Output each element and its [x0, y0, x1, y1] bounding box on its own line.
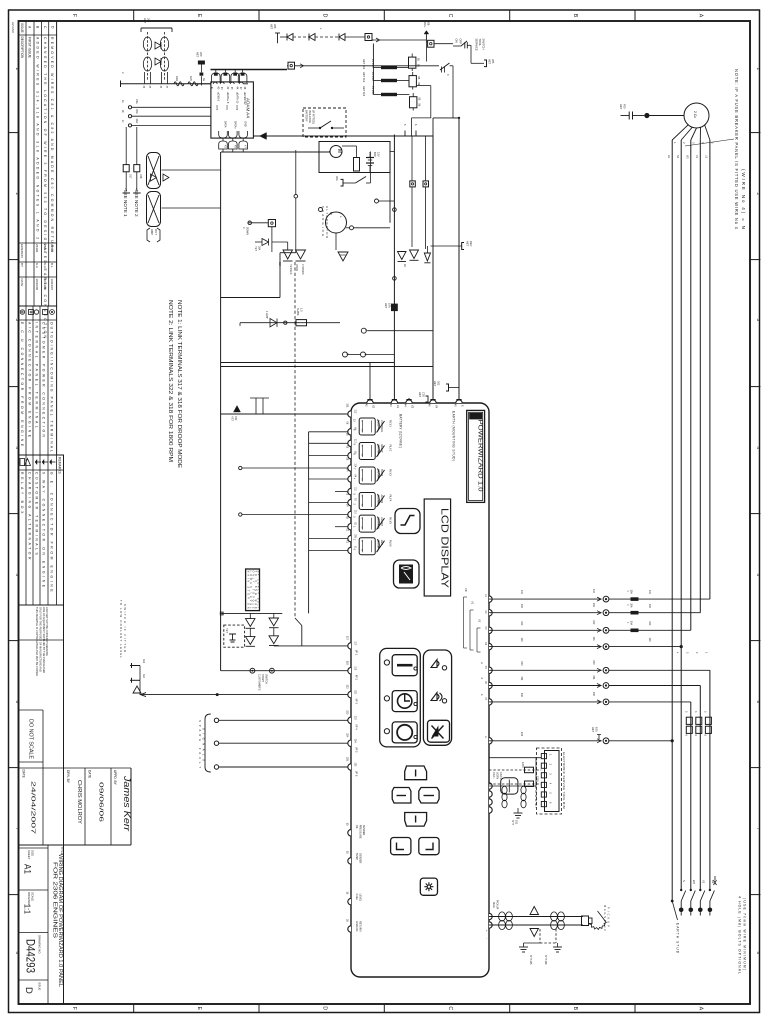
magnetic pickup sensor	[582, 905, 611, 931]
svg-text:I/P 3: I/P 3	[355, 699, 359, 705]
input terminal stubs I/P 1-6	[346, 636, 359, 777]
svg-text:1:1: 1:1	[23, 904, 33, 914]
svg-text:1.5: 1.5	[299, 308, 302, 312]
electronic service tool connector	[541, 751, 566, 812]
het C02 arrow marker	[231, 406, 241, 422]
ADAM comm pins	[219, 121, 248, 152]
svg-text:CUSTOMER'S: CUSTOMER'S	[258, 674, 261, 691]
wire left distribution bus	[221, 152, 296, 671]
AC sensing rows	[489, 589, 710, 602]
svg-text:CRANK: CRANK	[377, 469, 380, 478]
wire toggle output down	[453, 66, 460, 119]
svg-text:REMARKS: REMARKS	[58, 457, 62, 475]
svg-text:OIL: OIL	[355, 825, 358, 830]
svg-text:SWITCH: SWITCH	[264, 674, 267, 684]
AC wire number labels mid	[520, 590, 651, 737]
svg-text:308: 308	[426, 21, 430, 26]
low coolant label	[119, 600, 127, 658]
alarm buttons frame	[423, 650, 451, 745]
title block	[19, 605, 133, 1004]
svg-text:HET: HET	[433, 381, 437, 387]
voltage sense brackets	[464, 588, 482, 652]
relay RLY3	[353, 467, 393, 484]
scroll right key	[419, 788, 439, 804]
do not scale cell	[19, 709, 44, 711]
wire relay outputs	[412, 86, 431, 136]
svg-text:ALARM: ALARM	[380, 495, 383, 504]
control buttons frame	[380, 648, 421, 747]
isolator switch	[320, 121, 331, 128]
relay bank internal pin numbers	[361, 420, 363, 552]
svg-text:NOTE 2: LINK TERMINALS 322 &: NOTE 2: LINK TERMINALS 322 & 318 FOR 180…	[167, 300, 173, 462]
scale cell	[19, 932, 49, 934]
svg-text:A: A	[698, 1007, 704, 1011]
svg-text:HET 313: HET 313	[362, 72, 366, 83]
svg-text:K.A: K.A	[35, 263, 39, 268]
svg-text:BATTERY (12/24Vdc): BATTERY (12/24Vdc)	[399, 414, 403, 448]
svg-text:ECN/DCN: ECN/DCN	[20, 244, 24, 258]
svg-text:FOR 2306 ENGINES: FOR 2306 ENGINES	[52, 862, 58, 939]
svg-text:OFF: OFF	[459, 39, 463, 45]
terminal stub DEC	[427, 241, 473, 253]
diode D306	[280, 34, 293, 41]
svg-text:THIS DRAWING IS COPYRIGHTED AN: THIS DRAWING IS COPYRIGHTED AND MAY BE C…	[35, 607, 39, 676]
svg-text:DATE: DATE	[22, 770, 26, 778]
scroll left key	[392, 788, 411, 804]
charging alternator	[319, 206, 391, 238]
svg-text:START: START	[261, 674, 264, 682]
alarm acknowledge icon	[431, 660, 447, 671]
svg-text:DRAWING NO.: DRAWING NO.	[38, 935, 42, 954]
svg-text:230: 230	[520, 661, 523, 666]
terminal ticks 315 316	[403, 124, 417, 136]
circled F terminal	[361, 328, 433, 333]
wire coil feed upper	[162, 169, 221, 171]
svg-text:SCRN: SCRN	[495, 772, 498, 779]
svg-text:EARTH STUD: EARTH STUD	[676, 923, 680, 954]
resistor R1R burden	[174, 76, 184, 86]
emergency stop warning box	[246, 569, 260, 611]
svg-text:103: 103	[648, 604, 651, 609]
svg-text:B: B	[572, 1007, 578, 1011]
svg-text:R1R: R1R	[175, 76, 179, 81]
svg-text:CHASSIS: CHASSIS	[301, 264, 304, 275]
svg-text:HET/SCR: HET/SCR	[289, 264, 292, 275]
svg-text:AMP: AMP	[150, 229, 154, 235]
svg-text:HET: HET	[196, 52, 200, 58]
svg-text:ELECTRONIC SERVICE TOOL MINI: ELECTRONIC SERVICE TOOL MINI	[562, 752, 566, 809]
svg-text:28711: 28711	[43, 244, 47, 252]
svg-text:USE OF EQUIPMENT SUPPLIED BY T: USE OF EQUIPMENT SUPPLIED BY THE PURCHAS…	[42, 607, 46, 673]
svg-text:FUEL: FUEL	[377, 420, 380, 427]
svg-text:(USE 70mm WIRE MINIMUM): (USE 70mm WIRE MINIMUM)	[743, 898, 747, 970]
switch ON/OFF service tool	[453, 39, 471, 49]
fuse breaker note text	[734, 69, 746, 230]
diode TVS group	[398, 250, 431, 267]
svg-text:26306: 26306	[35, 244, 39, 253]
wire starter to bus	[390, 152, 394, 223]
cable size note	[738, 896, 747, 974]
svg-text:102: 102	[592, 620, 595, 625]
svg-text:FUEL: FUEL	[355, 894, 358, 901]
scroll down key	[405, 813, 427, 827]
svg-text:9 WAY CONNECTOR ON ENGINE: 9 WAY CONNECTOR ON ENGINE	[41, 472, 45, 588]
svg-text:HET: HET	[231, 416, 234, 421]
relay RLY6	[353, 538, 393, 555]
note leader line	[685, 139, 734, 146]
svg-text:D44293: D44293	[24, 939, 36, 973]
auto button	[384, 691, 417, 712]
svg-text:RELAY: RELAY	[380, 445, 383, 453]
svg-text:30A: 30A	[335, 176, 339, 181]
svg-text:231: 231	[592, 676, 595, 681]
svg-text:EARTH (MOUNTING STUD): EARTH (MOUNTING STUD)	[452, 411, 456, 461]
down signal stubs	[242, 220, 276, 253]
svg-text:204: 204	[146, 18, 150, 23]
relay coil K1	[409, 54, 420, 72]
svg-text:SHT 106: SHT 106	[544, 955, 547, 965]
ADAM wire tiny labels	[210, 87, 241, 111]
relay wire numbers	[346, 404, 349, 544]
battery input bumps top edge	[367, 400, 462, 403]
wire hop row into ADAM	[195, 82, 248, 84]
svg-text:324: 324	[346, 733, 349, 738]
svg-text:APPD. BY: APPD. BY	[113, 770, 117, 786]
terminal stub left analogue	[121, 72, 126, 87]
svg-text:DRN. BY: DRN. BY	[66, 770, 70, 784]
svg-text:SENDER: SENDER	[358, 853, 361, 864]
svg-text:101: 101	[520, 638, 523, 643]
svg-text:5: 5	[15, 574, 20, 577]
revision table	[19, 21, 57, 339]
fuse 10A main	[384, 303, 398, 311]
relay RLY5	[353, 515, 393, 532]
svg-text:35A: 35A	[135, 109, 139, 114]
link terminal 318	[133, 127, 143, 193]
wire row 36A	[128, 119, 211, 128]
wire pair to left battery terminals	[221, 363, 433, 367]
terminal stub HET 305	[484, 59, 495, 67]
svg-text:(IF FITTED): (IF FITTED)	[312, 110, 316, 124]
svg-text:E: E	[196, 14, 202, 18]
panel left terminal numbers	[354, 410, 356, 550]
svg-text:6: 6	[756, 701, 761, 704]
svg-text:ISSUE: ISSUE	[20, 23, 24, 33]
svg-text:BAT: BAT	[373, 152, 377, 157]
transducer coil XC2	[147, 192, 161, 227]
diode D202	[155, 58, 161, 65]
svg-text:232: 232	[520, 693, 523, 698]
svg-text:C: C	[447, 1006, 453, 1010]
escape key	[391, 838, 411, 855]
svg-text:104: 104	[592, 589, 595, 594]
svg-text:James Kerr: James Kerr	[122, 775, 132, 832]
svg-text:3072: 3072	[235, 105, 237, 111]
starter motor box	[319, 142, 390, 173]
svg-text:ALARM: ALARM	[380, 517, 383, 526]
svg-text:230: 230	[592, 660, 595, 665]
svg-text:30A: 30A	[629, 603, 632, 608]
svg-text:301: 301	[346, 404, 349, 409]
magnetic pickup wiring	[485, 900, 583, 939]
spare fault signal wires	[198, 714, 351, 772]
svg-text:PICKUP: PICKUP	[495, 900, 498, 910]
svg-text:8: 8	[15, 952, 20, 955]
alarm horn icon	[431, 693, 447, 704]
svg-text:317: 317	[129, 174, 133, 179]
svg-text:HET 312: HET 312	[362, 59, 366, 70]
PowerWizard nameplate	[467, 410, 485, 502]
low coolant warning triangle	[133, 686, 141, 693]
svg-text:AND MAY NOT BE COPIED OTHERWIS: AND MAY NOT BE COPIED OTHERWISE	[45, 607, 49, 656]
wire stubs above relay row	[250, 398, 269, 414]
terminal BAT+ 308	[423, 21, 430, 43]
auxiliary terminal circle	[375, 199, 395, 203]
manual run button	[384, 722, 417, 743]
svg-text:uDATA+ 8: uDATA+ 8	[226, 92, 229, 104]
svg-text:A1: A1	[23, 864, 33, 874]
wire row 34A	[128, 99, 211, 109]
mains fan-out wires	[672, 125, 715, 145]
svg-text:1R5: 1R5	[189, 76, 193, 81]
junction box 309	[345, 34, 372, 41]
svg-text:BAT+: BAT+	[423, 21, 427, 28]
svg-text:231: 231	[520, 677, 523, 682]
relay RLY4	[353, 493, 393, 510]
svg-text:POWERWIZARD 1.0: POWERWIZARD 1.0	[477, 420, 484, 492]
svg-text:3: 3	[756, 319, 761, 322]
diode DA3	[246, 628, 256, 646]
diode pair on coil feed	[151, 174, 170, 181]
svg-text:09/06/06: 09/06/06	[98, 782, 104, 822]
diode D201	[155, 42, 161, 49]
svg-text:SERVICE: SERVICE	[475, 39, 479, 51]
ADAM pin labels	[216, 92, 246, 105]
switch to IP1	[295, 618, 302, 646]
wire row 35A	[128, 109, 211, 118]
scroll up key	[405, 766, 427, 780]
svg-text:305: 305	[491, 59, 495, 64]
svg-text:101: 101	[592, 637, 595, 642]
svg-text:FIRST ISSUE: FIRST ISSUE	[27, 37, 31, 59]
diode pair mid	[272, 242, 306, 261]
panel earth row	[489, 727, 674, 744]
fuse HET 200	[196, 52, 205, 72]
low coolant terminal stubs	[130, 659, 145, 695]
wire analogue bus	[120, 83, 211, 85]
svg-text:318: 318	[139, 174, 143, 179]
drawing number cell	[19, 979, 49, 981]
svg-text:4: 4	[15, 447, 20, 450]
labels 30A 300R	[254, 246, 304, 275]
svg-text:6: 6	[15, 701, 20, 704]
run-mode icon button	[395, 509, 420, 534]
svg-text:2: 2	[756, 193, 761, 196]
svg-text:D: D	[322, 1006, 328, 1010]
svg-text:E00: E00	[520, 732, 523, 737]
svg-text:-: -	[485, 938, 489, 939]
svg-text:HET: HET	[591, 727, 595, 733]
svg-text:CONTROL: CONTROL	[380, 420, 383, 433]
fuse F3 15A	[362, 86, 410, 97]
svg-text:ADDED WIRES 314,318 AND 318 AD: ADDED WIRES 314,318 AND 318 ADDED NOTES …	[35, 37, 39, 239]
wire row2 to toggle	[295, 64, 440, 68]
sheet size cell	[19, 847, 49, 849]
svg-text:C02: C02	[421, 392, 425, 397]
svg-text:HET: HET	[619, 104, 623, 110]
svg-text:120R: 120R	[521, 762, 524, 768]
wiring legend table	[19, 306, 57, 455]
svg-text:7: 7	[15, 828, 20, 831]
can twisted pair upper	[502, 786, 507, 808]
het C02 stub	[418, 392, 428, 402]
wire bus V2 right	[432, 136, 434, 398]
svg-text:N: N	[682, 880, 686, 882]
CT cluster tiny labels	[121, 86, 167, 124]
svg-text:+: +	[485, 930, 489, 932]
module ADAM A4	[211, 82, 254, 138]
svg-text:I/P 5: I/P 5	[355, 747, 359, 753]
generator output rows	[480, 660, 710, 673]
svg-text:306: 306	[273, 24, 277, 29]
svg-text:F00: F00	[622, 104, 626, 109]
svg-text:DATA-: DATA-	[224, 121, 227, 128]
sensor terminal stubs	[346, 823, 365, 932]
mains wire labels top	[667, 155, 708, 159]
input terminal numbers	[354, 641, 356, 767]
svg-text:AUDIBLE: AUDIBLE	[377, 495, 380, 506]
svg-text:SWITCH IF FITTED: SWITCH IF FITTED	[123, 604, 127, 652]
svg-text:1 AMP: 1 AMP	[265, 311, 268, 319]
svg-text:GEN: GEN	[380, 540, 383, 546]
terminal stub HET 306	[270, 24, 281, 43]
relay terminal wires	[221, 414, 351, 613]
panel top terminal stubs	[367, 118, 463, 409]
wire input 2 customer start	[221, 668, 351, 673]
svg-text:103: 103	[592, 603, 595, 608]
svg-text:104: 104	[520, 590, 523, 595]
remarks legend table	[19, 455, 64, 605]
svg-text:HET: HET	[254, 246, 257, 251]
svg-text:24/04/2007: 24/04/2007	[30, 781, 36, 834]
wire input 1	[274, 645, 351, 647]
svg-text:I/P 6: I/P 6	[355, 771, 359, 777]
diode DA4	[269, 628, 279, 646]
wire coil feed lower	[162, 207, 221, 209]
svg-text:V1: V1	[471, 601, 475, 605]
toggle switch SW2	[440, 63, 453, 76]
svg-text:V2: V2	[478, 619, 482, 623]
diode DA1	[246, 613, 256, 628]
service tool rounded connector	[501, 778, 518, 794]
svg-text:ISSUE: ISSUE	[38, 982, 42, 991]
svg-text:102: 102	[648, 621, 651, 626]
svg-text:1: 1	[756, 68, 761, 71]
fuse F2 15A	[362, 72, 409, 83]
svg-text:PRESSURE: PRESSURE	[358, 825, 361, 839]
svg-text:27897: 27897	[50, 244, 54, 253]
relay RLY2	[353, 443, 393, 460]
svg-text:10A: 10A	[387, 303, 391, 308]
svg-text:2: 2	[15, 193, 20, 196]
svg-text:104: 104	[648, 590, 651, 595]
svg-text:120R: 120R	[536, 776, 539, 782]
svg-text:K.A: K.A	[43, 263, 47, 268]
wire input 3 low coolant	[141, 693, 352, 697]
svg-text:20/12/06: 20/12/06	[43, 279, 47, 291]
svg-text:A2 CAD: A2 CAD	[11, 22, 15, 34]
relay RLY1	[353, 418, 393, 435]
svg-text:DATA+: DATA+	[233, 121, 236, 129]
LCD display	[424, 499, 450, 596]
svg-text:DOOR: DOOR	[295, 264, 298, 271]
svg-text:RELAY BOX: RELAY BOX	[20, 472, 24, 514]
svg-text:18/10/06: 18/10/06	[35, 279, 39, 291]
wire fuel feed	[240, 308, 340, 327]
svg-text:HET: HET	[488, 59, 492, 65]
svg-text:I/P 2: I/P 2	[355, 675, 359, 681]
svg-text:ANALOG: ANALOG	[355, 921, 358, 931]
svg-text:uEVENT12: uEVENT12	[243, 92, 246, 105]
genset connector 2CX	[684, 103, 709, 128]
svg-text:302: 302	[436, 381, 440, 386]
svg-text:323: 323	[346, 710, 349, 715]
svg-text:E: E	[196, 1007, 202, 1011]
svg-text:101: 101	[648, 638, 651, 643]
svg-text:D: D	[322, 14, 328, 18]
svg-text:5: 5	[756, 574, 761, 577]
vertical from row1 to row2	[425, 43, 427, 61]
wire ADAM data bus with arrow	[253, 133, 433, 140]
circled B and V terminals	[343, 352, 395, 357]
key switch stub HET 302	[433, 381, 459, 391]
svg-text:322: 322	[346, 685, 349, 690]
svg-text:DATE: DATE	[20, 279, 24, 287]
wire fuse feed bus	[372, 40, 381, 95]
pickup shield triangles	[530, 907, 539, 937]
svg-text:LCD DISPLAY: LCD DISPLAY	[439, 508, 450, 588]
svg-text:B.L: B.L	[50, 263, 54, 268]
svg-text:103: 103	[520, 604, 523, 609]
svg-text:7: 7	[756, 828, 761, 831]
svg-text:30A: 30A	[629, 621, 632, 626]
svg-text:232: 232	[592, 692, 595, 697]
relay coil K3	[410, 93, 421, 111]
svg-text:DO NOT SCALE: DO NOT SCALE	[28, 719, 34, 760]
can twisted pair lower	[521, 786, 526, 808]
svg-text:HET: HET	[143, 18, 147, 24]
ADAM analogue input stub	[200, 73, 206, 86]
wire neutral N vertical	[680, 140, 683, 890]
svg-text:NOTE: IF A FUSE BREAKER PANEL: NOTE: IF A FUSE BREAKER PANEL IS FITTED …	[734, 69, 739, 230]
svg-text:30A: 30A	[257, 246, 260, 251]
wire comm bus	[221, 151, 330, 153]
svg-text:OUT: OUT	[154, 229, 158, 235]
amp out label	[147, 228, 160, 242]
svg-text:A/C CONNECTOR FROM ENGINE: A/C CONNECTOR FROM ENGINE	[27, 322, 31, 438]
wire service switch to HET 305	[471, 45, 484, 63]
svg-text:CRANK: CRANK	[377, 445, 380, 454]
svg-text:DEC: DEC	[469, 241, 473, 247]
dashed sense line	[294, 262, 296, 618]
date cell	[19, 767, 64, 769]
svg-text:343: 343	[142, 659, 145, 664]
wire main positive bus V1	[393, 135, 397, 399]
svg-text:C: C	[447, 14, 453, 18]
junction boxes on relay drops	[410, 136, 429, 249]
svg-text:F: F	[71, 14, 77, 17]
svg-text:34A: 34A	[135, 99, 139, 104]
